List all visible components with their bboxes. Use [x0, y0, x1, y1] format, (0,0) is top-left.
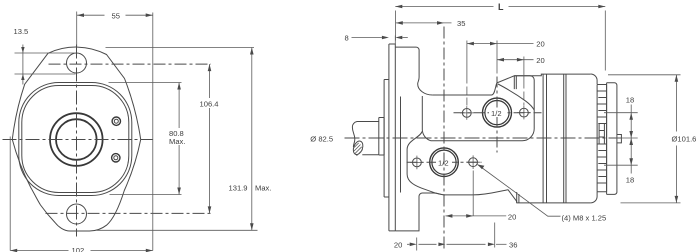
front port right bolt — [466, 155, 480, 169]
small hole lower right inner — [114, 156, 118, 160]
front port vertical centerline (ext of 35) — [443, 27, 445, 251]
body rounded-square inner — [22, 86, 129, 193]
svg-text:8: 8 — [345, 34, 349, 43]
shaft end hatched ellipse — [352, 140, 365, 156]
svg-text:55: 55 — [112, 11, 120, 20]
front port horizontal centerline — [407, 161, 482, 163]
svg-text:102: 102 — [72, 246, 85, 252]
svg-text:20: 20 — [394, 240, 402, 249]
left ext line (102) — [9, 137, 11, 251]
dim 13.5 vertical with arrows — [22, 45, 24, 85]
svg-text:Ø 82.5: Ø 82.5 — [310, 134, 333, 143]
top port left bolt — [460, 106, 474, 120]
front port inner circle — [432, 150, 456, 174]
svg-text:20: 20 — [536, 56, 544, 65]
top port right bolt — [517, 106, 531, 120]
small hole upper right outer — [112, 117, 120, 125]
front port left bolt — [410, 156, 424, 170]
top port boss outline — [422, 76, 534, 141]
svg-text:Max.: Max. — [255, 183, 271, 192]
vertical centerline — [76, 45, 78, 237]
dim 13.5 ext line bottom — [15, 73, 76, 75]
svg-text:18: 18 — [626, 175, 634, 184]
rear section divisions — [543, 74, 566, 203]
ext line left top bolt — [466, 76, 468, 106]
svg-text:13.5: 13.5 — [14, 27, 29, 36]
svg-text:20: 20 — [508, 212, 516, 221]
top port label — [489, 108, 505, 117]
small hole upper right inner — [114, 119, 118, 123]
flange top boss — [395, 47, 432, 95]
horn vertical edges — [514, 76, 516, 89]
rear right corners into bolt column — [591, 74, 598, 203]
dim 131.9 Max — [106, 47, 255, 49]
svg-text:36: 36 — [509, 240, 517, 249]
top mounting hole — [67, 53, 87, 73]
svg-text:35: 35 — [457, 19, 465, 28]
top port vertical centerline — [496, 77, 498, 153]
body front face line — [400, 97, 402, 193]
bottom mounting hole — [67, 204, 87, 224]
flange plate — [389, 44, 395, 231]
pilot disc — [384, 80, 389, 198]
pilot ring outer — [50, 113, 103, 166]
main horizontal centerline — [345, 137, 622, 139]
shaft collar — [379, 118, 384, 156]
dim 80.8 Max — [109, 82, 182, 84]
svg-text:20: 20 — [536, 40, 544, 49]
right ext line (55/102) — [152, 13, 154, 251]
top port horizontal centerline — [454, 112, 542, 114]
svg-text:(4) M8 x 1.25: (4) M8 x 1.25 — [562, 213, 607, 222]
svg-text:106.4: 106.4 — [200, 99, 219, 108]
svg-text:1/2: 1/2 — [491, 109, 502, 118]
bottom hole centerline to right — [46, 212, 212, 214]
pilot ring inner — [56, 119, 97, 160]
front port label — [436, 158, 452, 167]
svg-text:18: 18 — [626, 95, 634, 104]
top port inner circle — [485, 101, 509, 125]
horizontal centerline — [3, 139, 153, 141]
flange bottom foot — [395, 193, 445, 231]
body bottom edge to horn — [445, 190, 591, 203]
body top edge to horn — [432, 74, 590, 95]
small hole lower right outer — [112, 154, 120, 162]
front port boss outline — [407, 132, 445, 195]
top boss blend curve — [498, 84, 534, 110]
top port outer circle — [483, 98, 512, 127]
svg-text:Max.: Max. — [169, 137, 185, 146]
end center protrusion — [617, 135, 622, 143]
M8 leader — [478, 165, 561, 217]
shaft — [352, 122, 378, 155]
svg-text:1/2: 1/2 — [438, 158, 449, 167]
front port outer circle — [430, 148, 459, 177]
top hole centerline to right — [49, 63, 212, 65]
dim 106.4 — [209, 64, 211, 213]
svg-text:Ø101.6: Ø101.6 — [672, 135, 697, 144]
bolt column — [597, 85, 607, 192]
dim 13.5 ext line top — [15, 52, 75, 54]
svg-text:L: L — [498, 2, 504, 12]
horn bottom verticals — [517, 192, 519, 203]
body rounded-square outer — [19, 83, 132, 196]
svg-text:131.9: 131.9 — [229, 183, 248, 192]
end plate — [607, 83, 617, 195]
flange outline — [12, 47, 140, 231]
dim diameter 101.6 — [608, 74, 681, 76]
